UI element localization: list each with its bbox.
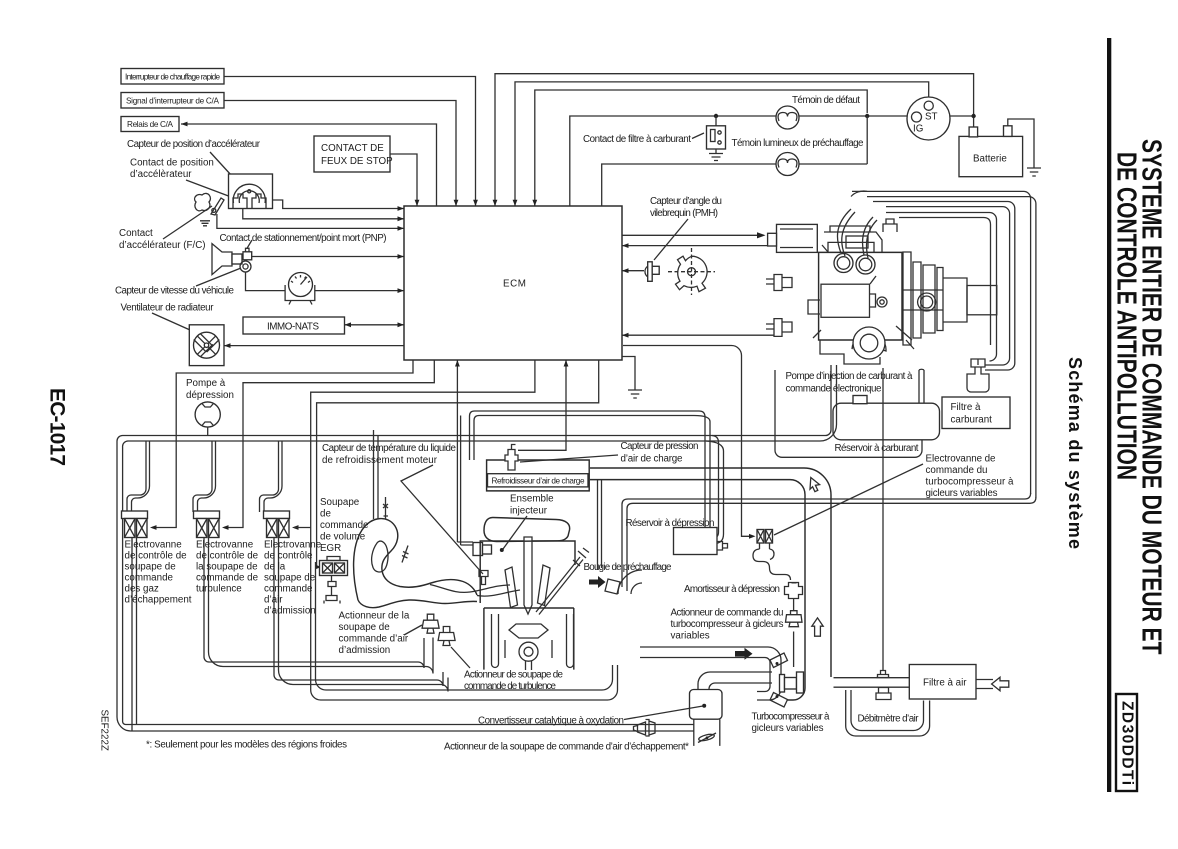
turbo actuator xyxy=(786,611,803,667)
svg-text:de contrôle de: de contrôle de xyxy=(196,551,259,562)
label electrovanne 2 xyxy=(196,540,259,595)
svg-text:Capteur de pression: Capteur de pression xyxy=(621,441,699,452)
pump return line to tank area xyxy=(775,370,922,457)
svg-text:Electrovanne: Electrovanne xyxy=(264,540,322,551)
wide charge duct xyxy=(590,468,831,700)
label ensemble injecteur xyxy=(500,494,554,553)
exhaust air control actuator xyxy=(634,720,656,737)
label Capteur d'angle du vilebrequin xyxy=(650,196,722,260)
charge runner pipe to head xyxy=(598,480,602,570)
label debimetre xyxy=(858,714,920,725)
svg-text:IG: IG xyxy=(913,124,923,135)
svg-text:Ventilateur de radiateur: Ventilateur de radiateur xyxy=(121,303,215,314)
svg-text:turbulence: turbulence xyxy=(196,584,242,595)
label electrovanne 3 xyxy=(264,540,322,617)
fuel line middle loop to filter xyxy=(873,202,1015,371)
label Capteur de vitesse du vehicule xyxy=(115,286,235,297)
svg-text:Capteur de température du liqu: Capteur de température du liquide xyxy=(322,443,457,454)
label actionneur echappement xyxy=(444,742,689,753)
fault warning lamp xyxy=(776,106,799,129)
svg-text:gicleurs variables: gicleurs variables xyxy=(926,488,998,499)
svg-text:ST: ST xyxy=(925,112,938,123)
battery xyxy=(959,126,1023,177)
ZD30DDTi box xyxy=(1116,694,1137,791)
duct flow cursor arrow xyxy=(810,478,820,492)
box IMMO-NATS xyxy=(243,317,345,334)
wire IMMO-NATS to ECM double arrow xyxy=(345,322,405,327)
label reservoir depression xyxy=(626,518,715,529)
wire pump lower plug to ECM xyxy=(622,333,774,338)
wire ECM to pump control solenoid xyxy=(622,232,766,238)
svg-text:EC-1017: EC-1017 xyxy=(46,388,69,466)
svg-text:EGR: EGR xyxy=(320,543,341,554)
air filter box xyxy=(909,665,976,700)
wire intake loop inner xyxy=(316,562,613,690)
fuel filter symbol xyxy=(967,359,989,392)
svg-text:de: de xyxy=(320,509,331,520)
svg-text:Pompe à: Pompe à xyxy=(186,378,226,389)
svg-text:commande de: commande de xyxy=(196,573,259,584)
svg-text:turbocompresseur à gicleurs: turbocompresseur à gicleurs xyxy=(671,619,784,630)
svg-text:Pompe d’injection de carburant: Pompe d’injection de carburant à xyxy=(786,371,914,382)
wire chauffage rapide to ECM xyxy=(224,77,478,207)
accelerator position sensor xyxy=(229,174,273,209)
label Pompe d'injection xyxy=(786,371,914,395)
svg-text:de refroidissement moteur: de refroidissement moteur xyxy=(322,455,438,466)
svg-text:des gaz: des gaz xyxy=(125,584,159,595)
box Signal d'interrupteur de C/A xyxy=(121,93,224,109)
junction dot ST right xyxy=(941,114,973,118)
svg-text:Turbocompresseur à: Turbocompresseur à xyxy=(752,712,831,723)
label Contact d'accelerateur (F/C) xyxy=(119,228,206,251)
svg-text:commande du: commande du xyxy=(926,465,988,476)
intake runners xyxy=(430,585,520,597)
label Temoin lumineux de prechauffage xyxy=(732,138,865,149)
svg-text:commande d’air: commande d’air xyxy=(339,634,409,645)
wire ECM to battery junction xyxy=(493,74,974,206)
solenoid 2 swirl control valve xyxy=(193,441,433,674)
ignition switch xyxy=(907,97,950,140)
box CONTACT DE FEUX DE STOP xyxy=(314,136,393,172)
svg-text:de contrôle de: de contrôle de xyxy=(125,551,188,562)
svg-text:Capteur d’angle du: Capteur d’angle du xyxy=(650,196,722,207)
svg-text:soupape de: soupape de xyxy=(125,562,177,573)
swirl actuator 2 xyxy=(438,627,455,646)
label bougie de prechauffage xyxy=(584,562,673,573)
leader lines to accel sensor xyxy=(186,152,253,199)
svg-text:commande: commande xyxy=(125,573,174,584)
svg-text:Electrovanne: Electrovanne xyxy=(125,540,183,551)
fuel line inner loop to tank xyxy=(886,213,997,438)
fuel filter switch xyxy=(707,116,726,149)
wire ECM to solenoid 3 xyxy=(292,360,618,700)
junction dot filter switch xyxy=(714,114,718,118)
turbo boost solenoid xyxy=(757,530,773,550)
cylinder head xyxy=(480,537,575,614)
svg-text:d’admission: d’admission xyxy=(264,606,316,617)
label electrovanne turbo xyxy=(774,454,1014,536)
air inlet arrow xyxy=(976,677,1009,691)
svg-text:gicleurs variables: gicleurs variables xyxy=(752,723,824,734)
solenoid 1 exhaust gas control valve xyxy=(122,441,150,731)
wire feux de stop to ECM xyxy=(390,154,419,206)
wire injector assembly to ECM xyxy=(455,360,460,542)
svg-text:Actionneur de la: Actionneur de la xyxy=(339,611,410,622)
svg-text:Actionneur de soupape de: Actionneur de soupape de xyxy=(464,670,564,681)
svg-text:d’air de charge: d’air de charge xyxy=(621,454,684,465)
wire ECM to warning lamp line xyxy=(570,116,907,206)
injector assembly xyxy=(457,416,569,556)
injection pump body xyxy=(766,209,997,364)
label electrovanne 1 xyxy=(125,540,192,606)
title line 1 xyxy=(1136,139,1167,654)
label amortisseur xyxy=(684,584,780,595)
title line 2 xyxy=(1111,152,1142,480)
fuel line inner partner xyxy=(899,218,991,346)
svg-text:dépression: dépression xyxy=(186,390,234,401)
wire ECM to EGR solenoid xyxy=(315,360,599,569)
leader fan xyxy=(152,313,190,330)
wire signal C/A to ECM xyxy=(224,101,458,207)
svg-text:Réservoir à dépression: Réservoir à dépression xyxy=(626,518,715,529)
long boost pipe xyxy=(622,493,1036,591)
EGR volume control valve xyxy=(320,557,348,604)
accelerator F/C contact symbol xyxy=(195,193,224,225)
right sidebar thick bar xyxy=(1107,38,1111,792)
svg-text:Filtre à: Filtre à xyxy=(951,402,981,413)
svg-text:d’air: d’air xyxy=(264,595,283,606)
svg-text:Témoin lumineux de préchauffag: Témoin lumineux de préchauffage xyxy=(732,138,865,149)
svg-text:IMMO-NATS: IMMO-NATS xyxy=(267,322,319,333)
svg-text:Electrovanne: Electrovanne xyxy=(196,540,254,551)
wire ECM to ST terminal xyxy=(532,90,867,206)
svg-text:Amortisseur à dépression: Amortisseur à dépression xyxy=(684,584,780,595)
svg-text:SEF222Z: SEF222Z xyxy=(99,710,110,751)
svg-text:Débitmètre d’air: Débitmètre d’air xyxy=(858,714,920,725)
turbo to catalyst pipe xyxy=(698,672,772,690)
label Temoin de defaut xyxy=(792,95,860,106)
svg-text:Interrupteur de chauffage rapi: Interrupteur de chauffage rapide xyxy=(125,72,220,81)
leader to F/C contact xyxy=(163,206,212,239)
svg-text:d’accélérateur (F/C): d’accélérateur (F/C) xyxy=(119,240,206,251)
battery ground xyxy=(1008,119,1041,176)
vacuum reservoir xyxy=(674,528,728,555)
page number EC-1017 xyxy=(46,388,69,466)
intake manifold xyxy=(354,519,477,608)
svg-text:ECM: ECM xyxy=(503,279,527,290)
svg-text:Convertisseur catalytique à ox: Convertisseur catalytique à oxydation xyxy=(478,716,624,727)
svg-text:Capteur de vitesse du véhicule: Capteur de vitesse du véhicule xyxy=(115,286,235,297)
junction dot battery riser xyxy=(971,114,975,118)
charge air pressure sensor xyxy=(505,445,518,471)
svg-text:Signal d’interrupteur de C/A: Signal d’interrupteur de C/A xyxy=(126,96,220,105)
svg-text:Relais de C/A: Relais de C/A xyxy=(127,120,174,129)
small injector icons xyxy=(383,497,409,563)
junction dot preheat riser xyxy=(865,114,869,164)
vacuum pump xyxy=(195,402,220,436)
wire pump sensor to ECM xyxy=(622,243,767,248)
svg-text:de contrôle: de contrôle xyxy=(264,551,313,562)
svg-text:Réservoir à carburant: Réservoir à carburant xyxy=(835,443,919,454)
box Interrupteur de chauffage rapide xyxy=(121,69,224,85)
label Capteur de position d'accelerateur xyxy=(127,139,261,150)
svg-text:Electrovanne de: Electrovanne de xyxy=(926,454,997,465)
glow plug xyxy=(536,548,589,615)
svg-text:vilebrequin (PMH): vilebrequin (PMH) xyxy=(650,208,718,219)
svg-text:turbocompresseur à: turbocompresseur à xyxy=(926,477,1015,488)
duct up arrow xyxy=(812,618,823,636)
svg-text:CONTACT DE: CONTACT DE xyxy=(321,143,384,154)
fuel line outer loop xyxy=(851,191,1036,498)
wire boost solenoid control xyxy=(623,346,756,539)
injection pump top solenoid xyxy=(768,224,818,252)
label Contact de stationnement/point mort (PNP) xyxy=(220,233,387,244)
svg-text:soupape de: soupape de xyxy=(264,573,316,584)
label actionneur admission xyxy=(339,611,423,657)
svg-text:Batterie: Batterie xyxy=(973,154,1007,165)
vehicle speed sensor cone xyxy=(212,244,251,275)
svg-text:Contact de stationnement/point: Contact de stationnement/point mort (PNP… xyxy=(220,233,387,244)
svg-text:injecteur: injecteur xyxy=(510,506,548,517)
vacuum damper xyxy=(785,583,803,611)
svg-text:Refroidisseur d’air de charge: Refroidisseur d’air de charge xyxy=(492,477,585,486)
svg-text:FEUX DE STOP: FEUX DE STOP xyxy=(321,156,393,167)
svg-text:carburant: carburant xyxy=(951,415,993,426)
svg-text:Contact de filtre à carburant: Contact de filtre à carburant xyxy=(583,134,691,145)
label Ventilateur de radiateur xyxy=(121,303,215,314)
exhaust elbow arcs xyxy=(605,570,642,594)
svg-text:Contact de position: Contact de position xyxy=(130,158,214,169)
figure code SEF222Z xyxy=(99,710,110,751)
fuel filter label box xyxy=(942,397,1010,429)
label soupape EGR xyxy=(320,497,369,554)
wire accel sensor pin2 to ECM xyxy=(243,209,404,222)
svg-text:de la: de la xyxy=(264,562,286,573)
svg-text:Bougie de préchauffage: Bougie de préchauffage xyxy=(584,562,673,573)
svg-text:Schéma du système: Schéma du système xyxy=(1065,357,1085,549)
label actionneur turbulence xyxy=(451,647,564,692)
svg-text:Actionneur de la soupape de co: Actionneur de la soupape de commande d’a… xyxy=(444,742,689,753)
label capteur temperature liquide xyxy=(322,443,483,574)
crank angle sensor plug xyxy=(622,262,659,282)
black arrow into turbo xyxy=(735,648,753,660)
svg-text:Contact: Contact xyxy=(119,228,153,239)
radiator fan symbol xyxy=(189,325,224,366)
wire ECM to solenoid 2 xyxy=(222,360,434,530)
PNP switch symbol xyxy=(243,248,252,259)
label capteur pression air xyxy=(520,441,699,465)
wire ECM to solenoid 1 xyxy=(150,360,413,530)
subtitle Schema du systeme xyxy=(1065,357,1085,549)
svg-text:*: Seulement pour les modèles: *: Seulement pour les modèles des région… xyxy=(146,740,347,751)
svg-text:commande: commande xyxy=(264,584,313,595)
svg-text:Filtre à air: Filtre à air xyxy=(923,678,967,689)
label actionneur turbo xyxy=(671,608,784,642)
svg-text:ZD30DDTi: ZD30DDTi xyxy=(1119,701,1136,785)
black arrow to turbo xyxy=(589,576,606,588)
svg-text:soupape de: soupape de xyxy=(339,622,391,633)
box Relais de C/A xyxy=(121,117,179,132)
air flow meter duct loop xyxy=(846,690,930,736)
cylinder block xyxy=(484,608,574,670)
fuel tank xyxy=(833,396,940,455)
svg-text:d’échappement: d’échappement xyxy=(125,595,192,606)
ECM box xyxy=(404,206,622,360)
wire charge air pressure sensor to ECM xyxy=(518,360,568,450)
charge pipe to right xyxy=(470,411,711,528)
wire ECM to fan xyxy=(224,343,404,348)
svg-text:Capteur de position d’accéléra: Capteur de position d’accélérateur xyxy=(127,139,261,150)
wire PNP to ECM xyxy=(252,254,404,259)
leader PNP xyxy=(247,240,252,248)
label Contact de filtre a carburant xyxy=(583,133,704,145)
wire ECM to ignition switch IG xyxy=(513,82,929,206)
svg-text:Actionneur de commande du: Actionneur de commande du xyxy=(671,608,784,619)
oxidation catalytic converter xyxy=(690,690,723,746)
wire ECM to preheat lamp line xyxy=(602,164,868,206)
svg-text:la soupape de: la soupape de xyxy=(196,562,258,573)
svg-text:Soupape: Soupape xyxy=(320,497,360,508)
svg-text:d’admission: d’admission xyxy=(339,645,391,656)
wire F/C to ECM xyxy=(217,214,404,231)
footnote xyxy=(146,740,347,751)
pump extra details xyxy=(808,219,943,349)
air flow meter xyxy=(876,368,891,700)
svg-text:commande électronique: commande électronique xyxy=(786,384,883,395)
label turbocompresseur xyxy=(752,712,831,735)
label convertisseur catalytique xyxy=(478,704,706,727)
coolant temp sensor xyxy=(479,571,488,585)
svg-text:Ensemble: Ensemble xyxy=(510,494,554,505)
wire speed sensor to ECM via speedometer xyxy=(246,272,405,293)
label Contact de position d'accelerateur xyxy=(130,158,214,181)
svg-text:Témoin de défaut: Témoin de défaut xyxy=(792,95,860,106)
crank toothed wheel xyxy=(668,248,715,295)
preheat lamp xyxy=(776,153,799,176)
solenoid 3 intake air control valve xyxy=(260,441,449,692)
vacuum pump label xyxy=(186,378,234,401)
speedometer symbol xyxy=(285,273,315,305)
intake air actuator 1 xyxy=(422,614,439,633)
leader speed sensor xyxy=(196,268,241,286)
wire accel sensor pin1 to ECM xyxy=(273,200,405,211)
exhaust pipe engine to turbo xyxy=(640,647,781,700)
EGR pipe to manifold xyxy=(374,430,379,519)
wire ECM to relais xyxy=(181,122,437,206)
reservoir hose to actuator column xyxy=(753,549,791,580)
air pipe filter to turbo xyxy=(834,678,910,688)
vacuum supply line pair xyxy=(117,365,837,731)
ground below filter switch xyxy=(709,149,723,161)
ECM ground xyxy=(622,357,642,399)
turbo variable nozzle unit xyxy=(770,653,804,707)
svg-text:DE CONTROLE ANTIPOLLUTION: DE CONTROLE ANTIPOLLUTION xyxy=(1111,152,1142,480)
svg-text:variables: variables xyxy=(671,631,710,642)
intercooler box xyxy=(487,460,590,491)
vacuum branch to reservoir stub xyxy=(706,436,724,544)
svg-text:d’accélèrateur: d’accélèrateur xyxy=(130,169,192,180)
